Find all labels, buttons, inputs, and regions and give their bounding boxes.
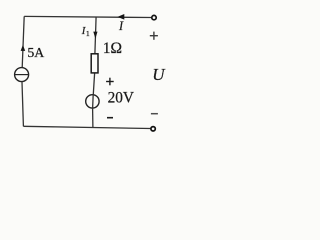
- label minus terminal: [151, 113, 158, 115]
- label minus of 20V: [107, 117, 113, 119]
- current source I_S circle: [15, 68, 29, 82]
- svg-text:1Ω: 1Ω: [103, 40, 122, 57]
- terminal bottom right: [151, 127, 155, 131]
- resistor R 1ohm body: [91, 54, 98, 73]
- label + of 20V horizontal stroke: [106, 81, 114, 83]
- wire source to bottom: [92, 109, 94, 128]
- svg-text:I: I: [118, 19, 124, 33]
- voltage source 20V circle: [86, 95, 99, 108]
- current source bar: [15, 74, 29, 76]
- wire top: [24, 16, 151, 17]
- label + of 20V vertical stroke: [109, 78, 111, 86]
- svg-text:5A: 5A: [27, 45, 44, 60]
- arrow I1 direction: [93, 32, 97, 39]
- terminal top right: [152, 15, 156, 19]
- wire left vertical upper: [22, 16, 24, 67]
- wire middle branch upper: [95, 17, 96, 54]
- svg-text:20V: 20V: [108, 90, 134, 107]
- wire left vertical lower: [22, 82, 23, 126]
- svg-text:I1: I1: [81, 25, 90, 38]
- arrow 5A current direction: [21, 45, 26, 51]
- wire bottom: [23, 126, 150, 128]
- arrow I current direction: [117, 14, 124, 20]
- wire resistor to source: [93, 74, 94, 95]
- label + terminal vertical stroke: [153, 32, 155, 40]
- svg-text:U: U: [152, 65, 166, 84]
- voltage source axis line: [92, 94, 95, 108]
- label + terminal horizontal stroke: [150, 35, 158, 37]
